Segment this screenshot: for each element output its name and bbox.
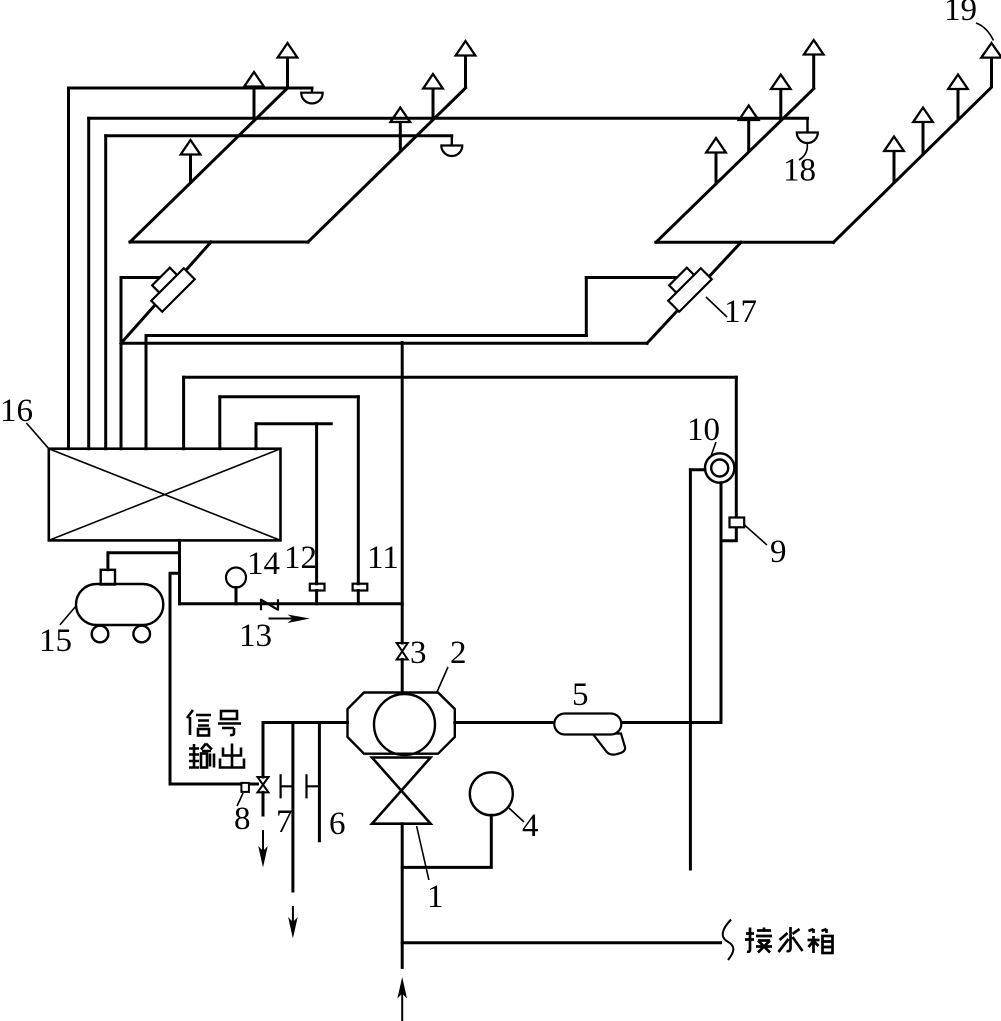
wire drain long vertical	[689, 470, 692, 869]
wire below switch-9	[721, 527, 736, 540]
svg-text:12: 12	[284, 540, 317, 576]
leader 18	[799, 143, 807, 160]
wire gauge-4 branch	[402, 815, 491, 867]
svg-text:7: 7	[276, 804, 293, 840]
wire manifold pipe	[180, 602, 403, 605]
wire bus riser A	[182, 377, 185, 448]
wire center riser bottom	[401, 824, 404, 968]
sprinkler R1a	[804, 40, 824, 89]
pendent sprinkler at header3	[441, 136, 462, 156]
flex joint 13	[261, 599, 278, 611]
leader 8	[237, 793, 243, 806]
sprinkler L2b	[423, 74, 443, 119]
leader 4	[509, 808, 524, 822]
wire alarm bottom vertical	[720, 483, 723, 723]
wire left riser 3	[104, 136, 107, 449]
wire center riser mid	[401, 660, 404, 693]
wire bus line A	[184, 376, 737, 379]
wire left zone feed diagonal	[121, 242, 211, 343]
sprinkler R1c	[739, 106, 759, 152]
svg-text:2: 2	[450, 635, 467, 671]
leader 17	[706, 297, 727, 317]
svg-text:10: 10	[687, 412, 720, 448]
wire header pipe 2	[89, 117, 808, 120]
wire right bypass riser	[585, 278, 588, 336]
wire signal line	[170, 573, 258, 784]
wire second cross line	[146, 334, 586, 337]
alarm valve 17	[661, 261, 712, 312]
svg-text:4: 4	[522, 808, 539, 844]
char xin	[187, 710, 211, 736]
arrow 13 flow	[269, 615, 311, 624]
wire branch diagonal left-zone right	[308, 88, 466, 242]
sprinkler R2c	[913, 108, 933, 155]
label connect water tank	[745, 927, 833, 953]
valve 11	[353, 584, 368, 591]
pump 2	[348, 693, 455, 756]
wire branch diagonal right-zone right	[834, 88, 992, 243]
tank 15	[76, 570, 163, 643]
valve 3	[397, 643, 408, 660]
wire pump suction pipe left	[264, 721, 347, 724]
wire main cross line	[121, 342, 647, 345]
sprinkler R1b	[771, 75, 791, 121]
svg-text:5: 5	[572, 677, 589, 713]
wire left bypass top	[121, 276, 162, 279]
char hao	[218, 711, 241, 735]
char shui	[779, 927, 803, 952]
wire second cross riser	[145, 336, 148, 449]
wire left zone bottom edge	[130, 241, 308, 244]
leader 1	[417, 826, 429, 880]
svg-text:1: 1	[427, 879, 444, 915]
sprinkler L2a	[456, 41, 476, 88]
leader 10	[711, 442, 716, 456]
leader 9	[745, 525, 768, 545]
sprinkler L1a	[278, 43, 298, 88]
sprinklers upright	[181, 40, 1001, 184]
wire test line 7	[291, 723, 294, 892]
wire center riser top	[401, 343, 404, 644]
wire right zone bottom edge	[656, 241, 834, 244]
gauge 4	[470, 772, 513, 815]
sprinkler L2c	[391, 108, 411, 151]
sensor square 8	[241, 783, 249, 792]
leader 19	[976, 23, 994, 41]
wire valve-12 drop line	[315, 424, 318, 604]
svg-text:15: 15	[39, 623, 72, 659]
main valve below pump	[372, 758, 431, 824]
sprinkler R1d	[706, 138, 726, 184]
svg-text:18: 18	[783, 153, 816, 189]
alarm valve left	[144, 261, 195, 312]
svg-text:16: 16	[0, 393, 33, 429]
wire manifold drop	[178, 540, 181, 603]
wire test line 6	[318, 723, 321, 841]
svg-text:8: 8	[234, 801, 251, 837]
pendent sprinkler at header1	[301, 88, 323, 103]
pendent sprinkler 18	[797, 118, 818, 143]
wire bus riser B	[218, 397, 221, 449]
pipe break symbol	[723, 920, 734, 961]
leader 2	[437, 667, 448, 692]
wire bus line C	[256, 422, 331, 425]
suction arrow	[397, 977, 407, 1021]
char jie	[745, 928, 772, 953]
wire header pipe 3	[106, 134, 452, 137]
wire left bypass riser	[120, 278, 123, 449]
wire gauge-14 stem	[235, 588, 238, 604]
leader 15	[60, 606, 76, 625]
svg-text:11: 11	[367, 540, 399, 576]
drain arrow 8	[258, 830, 268, 868]
char shu	[189, 744, 214, 768]
wire test line 6 tick	[307, 775, 320, 797]
wire alarm left port	[690, 468, 705, 471]
wire tank connection	[108, 553, 180, 570]
alarm gong 10	[705, 453, 734, 482]
wire right feed down	[735, 377, 738, 517]
sprinkler L1b	[244, 72, 264, 120]
wire branch diagonal right-zone left	[656, 89, 814, 243]
gauge 14	[226, 568, 246, 588]
sprinkler R2b	[948, 75, 968, 121]
sprinkler L1c	[181, 140, 201, 184]
char chu	[220, 744, 244, 768]
leader 16	[26, 423, 48, 449]
char xiang	[808, 929, 833, 953]
box 16 air compressor	[49, 449, 281, 541]
valve 8	[258, 777, 269, 792]
svg-text:9: 9	[770, 534, 787, 570]
wire drain to tank	[402, 941, 720, 944]
wire valve-11 drop line	[357, 397, 360, 604]
svg-text:3: 3	[410, 635, 427, 671]
wire left riser 2	[87, 118, 90, 448]
wire test line 7 tick	[281, 775, 293, 797]
wire header pipe 1	[69, 87, 313, 90]
svg-text:19: 19	[944, 0, 977, 28]
pressure switch 9	[730, 518, 745, 528]
drain arrow 7	[288, 906, 298, 939]
wire bus riser C	[255, 424, 258, 449]
wire right zone feed diagonal	[647, 242, 741, 343]
sprinkler R2d	[884, 137, 904, 183]
valve 12	[310, 584, 325, 591]
wire branch diagonal left-zone left	[130, 88, 288, 242]
svg-text:13: 13	[239, 618, 272, 654]
signal valve 5	[554, 714, 625, 755]
sprinkler R2a	[981, 43, 1001, 88]
svg-text:6: 6	[329, 806, 346, 842]
wire valve-5 pipe	[455, 721, 721, 724]
svg-text:14: 14	[247, 546, 280, 582]
label signal output	[187, 710, 244, 768]
wire valve-8 drop	[263, 723, 264, 816]
wire left riser 1	[67, 88, 70, 449]
wire bus line B	[220, 395, 358, 398]
wire right bypass top	[586, 276, 690, 279]
svg-text:17: 17	[724, 294, 757, 330]
